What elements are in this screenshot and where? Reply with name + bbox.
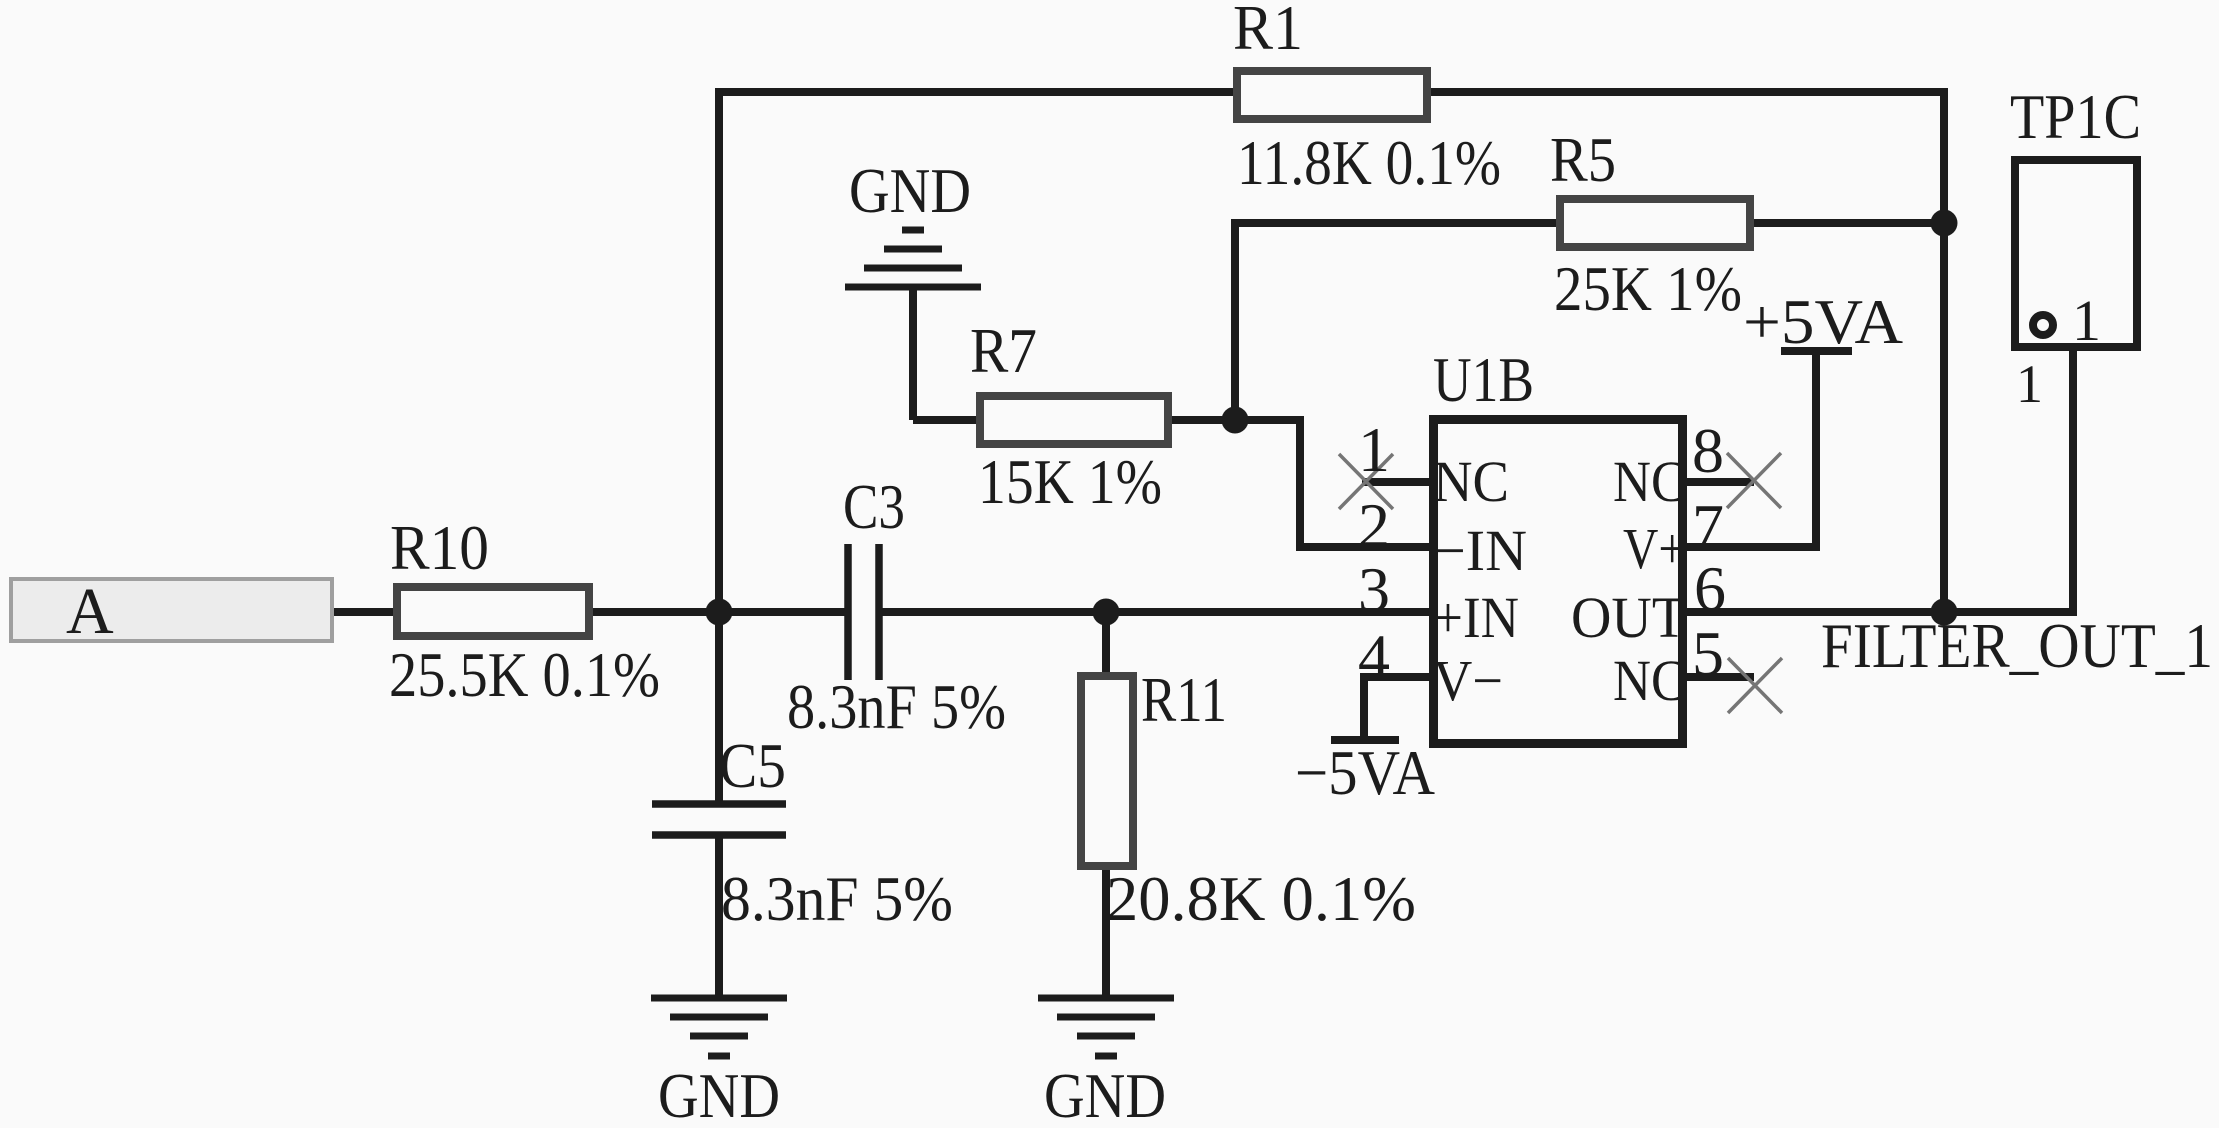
- svg-text:R10: R10: [390, 512, 489, 583]
- svg-text:GND: GND: [1044, 1060, 1166, 1128]
- svg-text:1: 1: [2072, 288, 2101, 353]
- svg-text:25.5K 0.1%: 25.5K 0.1%: [389, 639, 660, 710]
- svg-text:8.3nF 5%: 8.3nF 5%: [721, 863, 953, 934]
- svg-text:1: 1: [1358, 414, 1390, 485]
- svg-text:7: 7: [1692, 491, 1724, 562]
- svg-text:+IN: +IN: [1433, 585, 1519, 650]
- svg-text:−5VA: −5VA: [1295, 737, 1435, 808]
- svg-text:25K 1%: 25K 1%: [1554, 253, 1742, 324]
- svg-text:NC: NC: [1433, 449, 1509, 514]
- svg-text:8.3nF 5%: 8.3nF 5%: [787, 671, 1006, 742]
- svg-text:8: 8: [1692, 415, 1724, 486]
- svg-text:R11: R11: [1141, 664, 1227, 735]
- svg-text:20.8K 0.1%: 20.8K 0.1%: [1106, 863, 1416, 934]
- svg-text:15K 1%: 15K 1%: [978, 446, 1162, 517]
- svg-text:C3: C3: [843, 471, 905, 542]
- svg-text:−IN: −IN: [1433, 518, 1527, 583]
- svg-text:2: 2: [1358, 490, 1390, 561]
- svg-text:3: 3: [1358, 554, 1390, 625]
- svg-text:TP1C: TP1C: [2010, 81, 2141, 152]
- svg-text:NC: NC: [1613, 648, 1686, 713]
- svg-text:V+: V+: [1623, 516, 1686, 581]
- svg-text:+5VA: +5VA: [1743, 286, 1903, 357]
- svg-text:R1: R1: [1233, 0, 1303, 63]
- svg-text:C5: C5: [719, 730, 786, 801]
- svg-text:A: A: [66, 575, 114, 648]
- svg-text:OUT: OUT: [1571, 585, 1686, 650]
- svg-text:FILTER_OUT_1: FILTER_OUT_1: [1821, 610, 2213, 681]
- svg-text:GND: GND: [849, 155, 971, 226]
- svg-text:V−: V−: [1433, 648, 1503, 713]
- svg-text:NC: NC: [1613, 449, 1686, 514]
- svg-text:R5: R5: [1550, 124, 1616, 195]
- svg-text:11.8K 0.1%: 11.8K 0.1%: [1237, 127, 1501, 198]
- svg-text:5: 5: [1692, 618, 1724, 689]
- svg-text:1: 1: [2016, 354, 2043, 414]
- svg-text:6: 6: [1694, 553, 1726, 624]
- svg-text:R7: R7: [970, 315, 1037, 386]
- svg-text:GND: GND: [658, 1060, 780, 1128]
- svg-text:4: 4: [1358, 621, 1390, 692]
- svg-text:U1B: U1B: [1433, 344, 1534, 415]
